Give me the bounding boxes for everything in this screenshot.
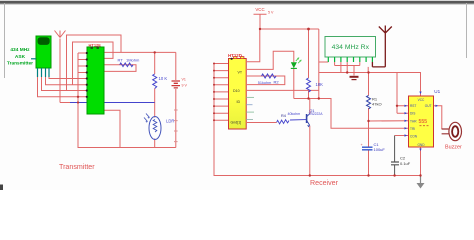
svg-text:434 MHz Rx: 434 MHz Rx bbox=[332, 44, 370, 51]
svg-text:TRI: TRI bbox=[410, 127, 415, 131]
svg-text:Receiver: Receiver bbox=[310, 179, 339, 187]
svg-text:Transmitter: Transmitter bbox=[59, 163, 95, 171]
svg-text:VT: VT bbox=[238, 71, 243, 75]
svg-text:HT12E: HT12E bbox=[89, 43, 102, 48]
svg-text:ASK: ASK bbox=[15, 54, 26, 60]
svg-text:R4: R4 bbox=[281, 114, 286, 118]
svg-text:THR: THR bbox=[410, 119, 417, 123]
svg-text:40kohm: 40kohm bbox=[288, 112, 301, 116]
svg-text:VCC: VCC bbox=[418, 98, 425, 102]
svg-text:VCC: VCC bbox=[255, 7, 264, 12]
svg-text:2N2222A: 2N2222A bbox=[308, 112, 323, 116]
svg-text:555: 555 bbox=[419, 119, 428, 125]
svg-text:CON: CON bbox=[410, 134, 418, 138]
svg-text:V1: V1 bbox=[182, 78, 186, 82]
svg-text:0.1uF: 0.1uF bbox=[400, 161, 411, 166]
svg-text:434 MHz: 434 MHz bbox=[10, 47, 30, 53]
svg-text:10K: 10K bbox=[316, 82, 324, 87]
svg-text:10 K: 10 K bbox=[159, 76, 168, 81]
svg-text:DIS: DIS bbox=[410, 112, 415, 116]
svg-text:LDR: LDR bbox=[166, 119, 174, 124]
svg-text:Buzzer: Buzzer bbox=[445, 145, 462, 151]
svg-text:51kohm: 51kohm bbox=[258, 81, 272, 85]
svg-text:47kO: 47kO bbox=[372, 102, 382, 107]
svg-text:Transmitter: Transmitter bbox=[7, 60, 33, 66]
svg-text:9 V: 9 V bbox=[182, 84, 188, 88]
svg-text:Gnd[1]: Gnd[1] bbox=[231, 121, 242, 125]
svg-text:OUT: OUT bbox=[425, 104, 432, 108]
svg-text:GND: GND bbox=[417, 143, 425, 147]
svg-text:1Mohm: 1Mohm bbox=[126, 58, 140, 63]
svg-text:C2: C2 bbox=[400, 156, 406, 161]
svg-text:HT12D: HT12D bbox=[228, 53, 242, 58]
svg-text:RT: RT bbox=[118, 58, 124, 63]
svg-text:D10: D10 bbox=[233, 89, 240, 93]
svg-text:RST: RST bbox=[410, 104, 416, 108]
svg-text:100uF: 100uF bbox=[374, 147, 386, 152]
svg-text:ID: ID bbox=[237, 100, 241, 104]
svg-text:R2: R2 bbox=[274, 80, 280, 85]
svg-text:5 V: 5 V bbox=[268, 11, 274, 15]
svg-text:U1: U1 bbox=[434, 89, 440, 94]
